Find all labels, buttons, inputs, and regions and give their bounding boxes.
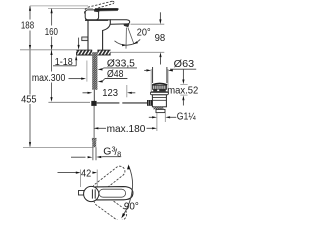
svg-text:G: G [103,147,111,158]
20 degree arc with arrows [115,39,141,45]
svg-text:160: 160 [45,27,58,38]
20 degree spray reference vertical [125,28,127,49]
hose down continuation [93,106,95,138]
max.180 dimension [94,127,99,129]
lever underside line [99,10,118,12]
arrow 188 top [29,6,31,11]
20 degree diagonal [128,28,134,44]
svg-text:Ø63: Ø63 [174,59,195,70]
deck hatched left band [76,50,92,55]
top view: lever neck lines [91,189,93,198]
svg-text:max.52: max.52 [167,85,198,96]
plug dome top [152,83,167,84]
hose extension tick [86,61,88,82]
lever solid [95,8,119,10]
extension line deck right [111,51,165,53]
pop-up drain assembly [147,67,168,113]
max.300 vertical dimension line [51,50,53,71]
svg-text:G1¼: G1¼ [177,110,196,122]
hose down from shank [93,90,95,101]
1-18 deck thickness down arrow [78,38,80,46]
extension line at hose level [48,101,90,103]
grey extension of spray line [126,85,128,97]
lever joint dark [94,9,100,12]
arrow 160 top [51,8,53,13]
svg-text:98: 98 [155,33,166,44]
arrow 455 bottom [29,142,31,147]
hose nut at crossing [91,101,96,106]
extension line bottom 455 [23,147,94,149]
hose horizontal grey [97,102,120,104]
arrow 188 bottom at deck [29,45,31,50]
svg-text:123: 123 [102,88,118,99]
98 dimension [131,23,165,25]
top view: pivot tab [79,191,84,196]
top view: dashed lever rotated up [91,164,127,195]
G3/8 arrows at tube [71,156,86,158]
knob on left [147,100,152,106]
D63 dimension [150,69,152,92]
body [152,95,166,107]
svg-text:90°: 90° [124,201,139,212]
90 degree arc [123,166,133,216]
svg-text:455: 455 [21,94,37,105]
spout [110,20,130,25]
handle base [85,10,98,20]
tailpiece tube [156,109,165,112]
top view: dashed lever rotated down [91,191,129,224]
top view: pivot circle [84,186,99,201]
dark band under rim [153,89,166,91]
dimension line 160 [51,8,53,49]
faucet body [88,20,110,50]
body top dark band [85,19,108,21]
top view: solid lever [89,187,133,200]
G3/8 nipple [92,138,97,141]
extension line top 160 [48,7,93,9]
123 dimension [83,92,89,94]
svg-text:20°: 20° [137,28,151,39]
svg-text:max.300: max.300 [32,73,66,84]
42 dimension (top view) [58,172,77,174]
top view: lever inner contour [99,189,126,197]
aerator [123,24,129,27]
svg-text:188: 188 [21,21,34,32]
svg-text:max.180: max.180 [107,124,146,135]
threaded shank below deck [92,52,97,90]
plug cylinder walls [152,67,154,83]
striped rim [152,85,166,89]
raised lever dashed [84,1,114,13]
protrusion on body left [82,37,88,41]
extension line deck left [20,49,76,51]
svg-text:42: 42 [81,168,91,179]
extension line top 188 [30,5,88,7]
deck hatched right band [97,50,110,55]
flange [150,92,168,95]
tube below nipple [92,147,94,160]
1-18 deck thickness up arrow [75,60,77,66]
G1 1/4 dimension [156,113,158,131]
threaded tailpiece band [153,107,163,110]
dimension line 188/455 [29,6,31,147]
max.52 dimension [182,69,184,80]
arrow 160 bottom [51,45,53,50]
